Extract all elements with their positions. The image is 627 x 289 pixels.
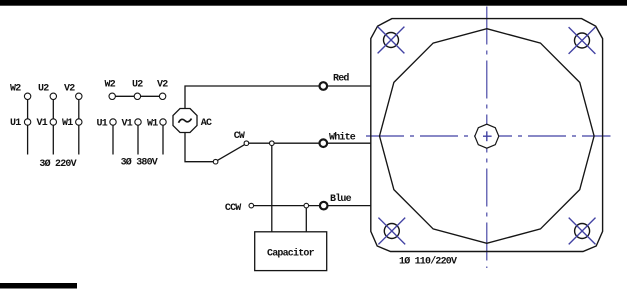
svg-text:W1: W1: [147, 118, 158, 129]
svg-text:1Ø 110/220V: 1Ø 110/220V: [399, 256, 457, 268]
shaft center cross: [483, 135, 492, 137]
junction node on White line: [270, 141, 275, 146]
svg-text:Red: Red: [333, 73, 349, 85]
terminal circle V2 220V: [76, 93, 82, 99]
svg-text:White: White: [329, 132, 356, 144]
svg-text:3Ø 380V: 3Ø 380V: [121, 157, 158, 169]
motor body outline: [371, 19, 603, 252]
CCW contact: [249, 203, 254, 208]
svg-text:3Ø 220V: 3Ø 220V: [39, 158, 76, 170]
terminal circle U2 380V: [134, 93, 140, 99]
svg-text:U2: U2: [38, 83, 49, 94]
svg-text:U1: U1: [10, 118, 21, 129]
mounting hole bottom-right: [575, 224, 590, 239]
bottom-left border bar: [0, 283, 77, 289]
mounting hole top-left: [384, 33, 399, 48]
centerline vertical: [486, 7, 488, 269]
wire AC top to Red line: [185, 86, 371, 109]
terminal circle W1 220V: [76, 119, 82, 125]
wire Blue line (CCW): [254, 205, 371, 207]
svg-text:W2: W2: [105, 79, 116, 90]
svg-text:V1: V1: [122, 118, 133, 129]
AC source octagon: [173, 108, 197, 132]
hole cross top-right: [569, 27, 596, 54]
svg-text:U2: U2: [132, 79, 143, 90]
wire 380V top link W2-U2-V2: [112, 95, 162, 97]
junction node on Blue line: [304, 203, 309, 208]
terminal circle U2 220V: [50, 93, 56, 99]
svg-text:W1: W1: [62, 118, 73, 129]
wire W2-U1 column (3-phase 220V group, col 1): [27, 96, 29, 154]
terminal circle W1 380V: [160, 119, 166, 125]
wire U2-V1 column (3-phase 220V group, col 2): [52, 96, 54, 154]
svg-text:W2: W2: [10, 83, 21, 94]
terminal circle V1 380V: [135, 119, 141, 125]
wire White line: [249, 142, 371, 144]
wire 380V W1 lead: [162, 122, 164, 155]
terminal circle V1 220V: [50, 119, 56, 125]
hole cross bottom-left: [378, 218, 405, 245]
terminal circle V2 380V: [159, 93, 165, 99]
svg-text:V2: V2: [157, 79, 168, 90]
svg-text:Capacitor: Capacitor: [267, 248, 315, 260]
terminal White: [320, 139, 328, 147]
terminal circle U1 220V: [24, 119, 30, 125]
svg-text:CCW: CCW: [225, 203, 241, 214]
mounting hole bottom-left: [384, 224, 399, 239]
terminal circle W2 380V: [109, 93, 115, 99]
svg-text:AC: AC: [201, 118, 212, 129]
switch pivot contact: [213, 159, 218, 164]
wire junction to capacitor right: [305, 206, 307, 232]
wire V2-W1 column (3-phase 220V group, col 3): [78, 96, 80, 154]
wire junction to capacitor left: [271, 143, 273, 232]
svg-text:V2: V2: [64, 83, 75, 94]
wire 380V V1 lead: [137, 122, 139, 155]
svg-text:CW: CW: [234, 131, 245, 142]
top border bar: [0, 0, 627, 6]
capacitor box: [255, 232, 327, 271]
svg-text:V1: V1: [37, 118, 48, 129]
svg-text:U1: U1: [97, 118, 108, 129]
hole cross top-left: [378, 27, 405, 54]
mounting hole top-right: [575, 33, 590, 48]
terminal circle U1 380V: [110, 119, 116, 125]
terminal Blue: [320, 202, 328, 210]
centerline horizontal: [366, 135, 611, 137]
wire AC bottom to switch pivot: [185, 133, 213, 162]
wire 380V U1 lead: [112, 122, 114, 155]
motor shaft octagon: [475, 124, 499, 148]
motor stator 12-gon: [380, 29, 595, 244]
AC tilde symbol: [179, 119, 192, 123]
hole cross bottom-right: [569, 218, 596, 245]
switch CW contact: [244, 141, 249, 146]
switch blade CW: [218, 145, 245, 161]
terminal circle W2 220V: [24, 93, 30, 99]
svg-text:Blue: Blue: [330, 193, 352, 205]
terminal Red: [320, 82, 328, 90]
